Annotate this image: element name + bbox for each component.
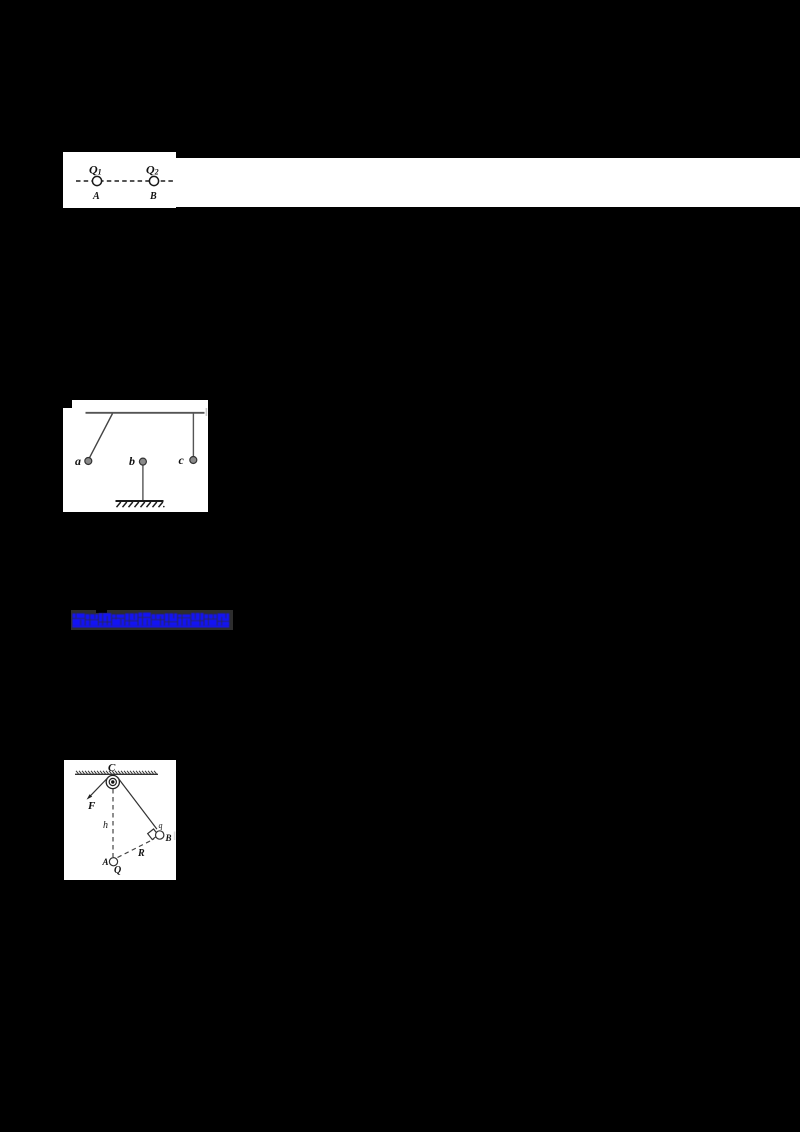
- wire dashed axis: [76, 180, 173, 182]
- dashed line R: [118, 839, 155, 858]
- svg-text:b: b: [129, 454, 135, 468]
- svg-text:B: B: [165, 833, 172, 843]
- figure 2: three pendulums a b c: [63, 400, 208, 512]
- link blue text (blurred CJK-like glyphs): [72, 611, 232, 634]
- wire string a: [89, 414, 112, 459]
- ball c: [190, 457, 197, 464]
- wire string c: [192, 414, 194, 459]
- node A charge circle: [92, 176, 101, 185]
- corner notch: [63, 400, 72, 408]
- figure 3: pulley system: [64, 760, 176, 880]
- svg-text:Q2: Q2: [146, 163, 159, 177]
- pulley inner: [109, 778, 116, 785]
- pulley outer: [106, 775, 119, 788]
- wire string b: [142, 464, 144, 501]
- black notch over strip: [96, 606, 107, 613]
- svg-text:q: q: [159, 821, 163, 830]
- ball a: [85, 458, 92, 465]
- ceiling line: [75, 773, 158, 775]
- svg-text:F: F: [87, 800, 96, 812]
- ground hatching: [117, 502, 163, 507]
- svg-text:A: A: [102, 857, 109, 867]
- ceiling hatching: [76, 771, 157, 774]
- dashed height line h: [112, 789, 114, 857]
- svg-text:C: C: [108, 762, 116, 774]
- ball b: [139, 458, 146, 465]
- svg-text:c: c: [179, 453, 185, 467]
- figure 1: two point charges Q1 Q2 on dashed line: [63, 152, 176, 208]
- charge A circle: [109, 858, 117, 866]
- node B charge circle: [149, 176, 158, 185]
- arrowhead F: [87, 794, 93, 799]
- svg-text:Q1: Q1: [89, 163, 102, 177]
- charge B circle: [156, 831, 164, 839]
- pulley axle dot: [111, 780, 114, 783]
- block on rope: [148, 829, 159, 840]
- svg-text:Q: Q: [114, 865, 121, 876]
- rope F side: [89, 777, 109, 798]
- faint tick: [206, 408, 208, 416]
- svg-text:h: h: [103, 820, 108, 831]
- link highlight strip: [71, 610, 233, 631]
- svg-text:a: a: [75, 454, 81, 468]
- svg-text:A: A: [92, 191, 100, 202]
- blank white strip image: [176, 158, 800, 207]
- hatch dot: [163, 506, 165, 508]
- faint tick right edge: [174, 832, 176, 841]
- svg-text:R: R: [137, 848, 145, 859]
- ceiling line: [86, 412, 205, 414]
- ground line: [116, 500, 164, 502]
- svg-text:B: B: [149, 191, 157, 202]
- rope B side: [118, 777, 157, 829]
